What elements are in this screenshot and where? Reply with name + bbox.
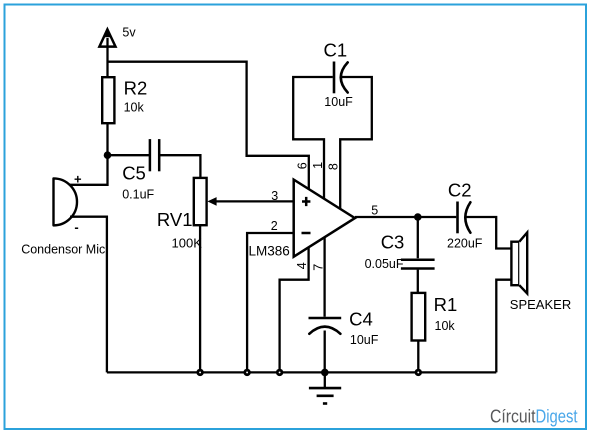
svg-text:R1: R1 (434, 294, 458, 315)
capacitor C4 (309, 309, 379, 347)
svg-text:100K: 100K (172, 236, 203, 251)
capacitor C2 (447, 179, 483, 250)
ground (309, 372, 341, 403)
capacitor C1 (324, 39, 354, 109)
node junction R1/ground (415, 369, 422, 376)
microphone MIC1 condenser (21, 171, 105, 256)
svg-text:Condensor Mic: Condensor Mic (21, 242, 105, 256)
node junction RV1/ground (196, 369, 203, 376)
node junction pin2/ground (243, 369, 250, 376)
resistor R2 (102, 77, 147, 123)
wire R1 bottom to ground rail (417, 341, 419, 373)
node junction output/C3 (414, 213, 422, 221)
capacitor C5 (122, 139, 159, 202)
wire C5 to RV1 top (159, 155, 200, 178)
wire pin 2 to ground rail (247, 233, 294, 372)
wire pin 1 to C1 left (293, 77, 333, 199)
svg-text:SPEAKER: SPEAKER (510, 297, 571, 312)
svg-text:Digest: Digest (536, 406, 578, 426)
op-amp U1 LM386 (249, 162, 379, 271)
wire pin 4 to ground rail (280, 248, 309, 373)
node junction R2/C5/mic (104, 151, 112, 159)
svg-text:0.1uF: 0.1uF (122, 188, 154, 202)
speaker LS1 (510, 233, 571, 312)
resistor R1 (412, 293, 458, 341)
svg-text:6: 6 (295, 162, 309, 169)
svg-text:7: 7 (311, 264, 325, 271)
svg-text:8: 8 (327, 163, 341, 170)
svg-text:10uF: 10uF (324, 95, 353, 109)
svg-text:5v: 5v (122, 26, 136, 40)
ground rail wire (107, 371, 496, 373)
svg-text:10uF: 10uF (350, 333, 379, 347)
wire 5v rail to pin 6 (108, 62, 309, 190)
svg-text:220uF: 220uF (447, 236, 483, 250)
svg-text:10k: 10k (124, 100, 145, 114)
wire pin 8 to C1 right (340, 77, 372, 209)
wire node to mic plus (69, 155, 108, 185)
svg-text:C1: C1 (324, 39, 348, 60)
wire speaker bottom to ground rail (496, 280, 511, 373)
svg-text:3: 3 (271, 189, 278, 203)
svg-text:0.05uF: 0.05uF (365, 257, 404, 271)
svg-text:4: 4 (295, 262, 309, 269)
node junction C4/ground (321, 369, 329, 377)
svg-text:C2: C2 (448, 179, 472, 200)
svg-text:5: 5 (371, 204, 378, 218)
wire RV1 wiper to pin 3 (212, 200, 294, 202)
power 5v (99, 26, 136, 78)
svg-text:RV1: RV1 (157, 209, 193, 230)
capacitor C3 (365, 232, 435, 271)
svg-text:+: + (74, 171, 82, 186)
potentiometer RV1 (157, 178, 217, 251)
svg-text:10k: 10k (435, 319, 456, 333)
wire op-amp output pin 5 to C2 (355, 216, 456, 218)
wire pin 7 to C4 (323, 238, 325, 317)
node junction pin4/ground (276, 369, 283, 376)
svg-text:Círcuit: Círcuit (490, 406, 536, 426)
wire mic minus to ground rail (70, 217, 107, 373)
svg-text:C5: C5 (122, 162, 146, 183)
svg-text:2: 2 (271, 219, 278, 233)
svg-text:R2: R2 (124, 77, 148, 98)
svg-text:C3: C3 (381, 232, 405, 253)
wire R2 bottom to node (106, 123, 108, 155)
svg-text:LM386: LM386 (249, 243, 290, 258)
wire C3 to R1 (417, 270, 419, 293)
wire C4 to ground rail (324, 331, 326, 373)
svg-text:-: - (74, 220, 78, 235)
wire RV1 bottom to ground rail (199, 225, 201, 372)
wire node to C5 (108, 154, 150, 156)
svg-text:C4: C4 (349, 309, 373, 330)
wire output node to C3 (417, 217, 419, 258)
wire C2 to speaker top (467, 217, 512, 249)
